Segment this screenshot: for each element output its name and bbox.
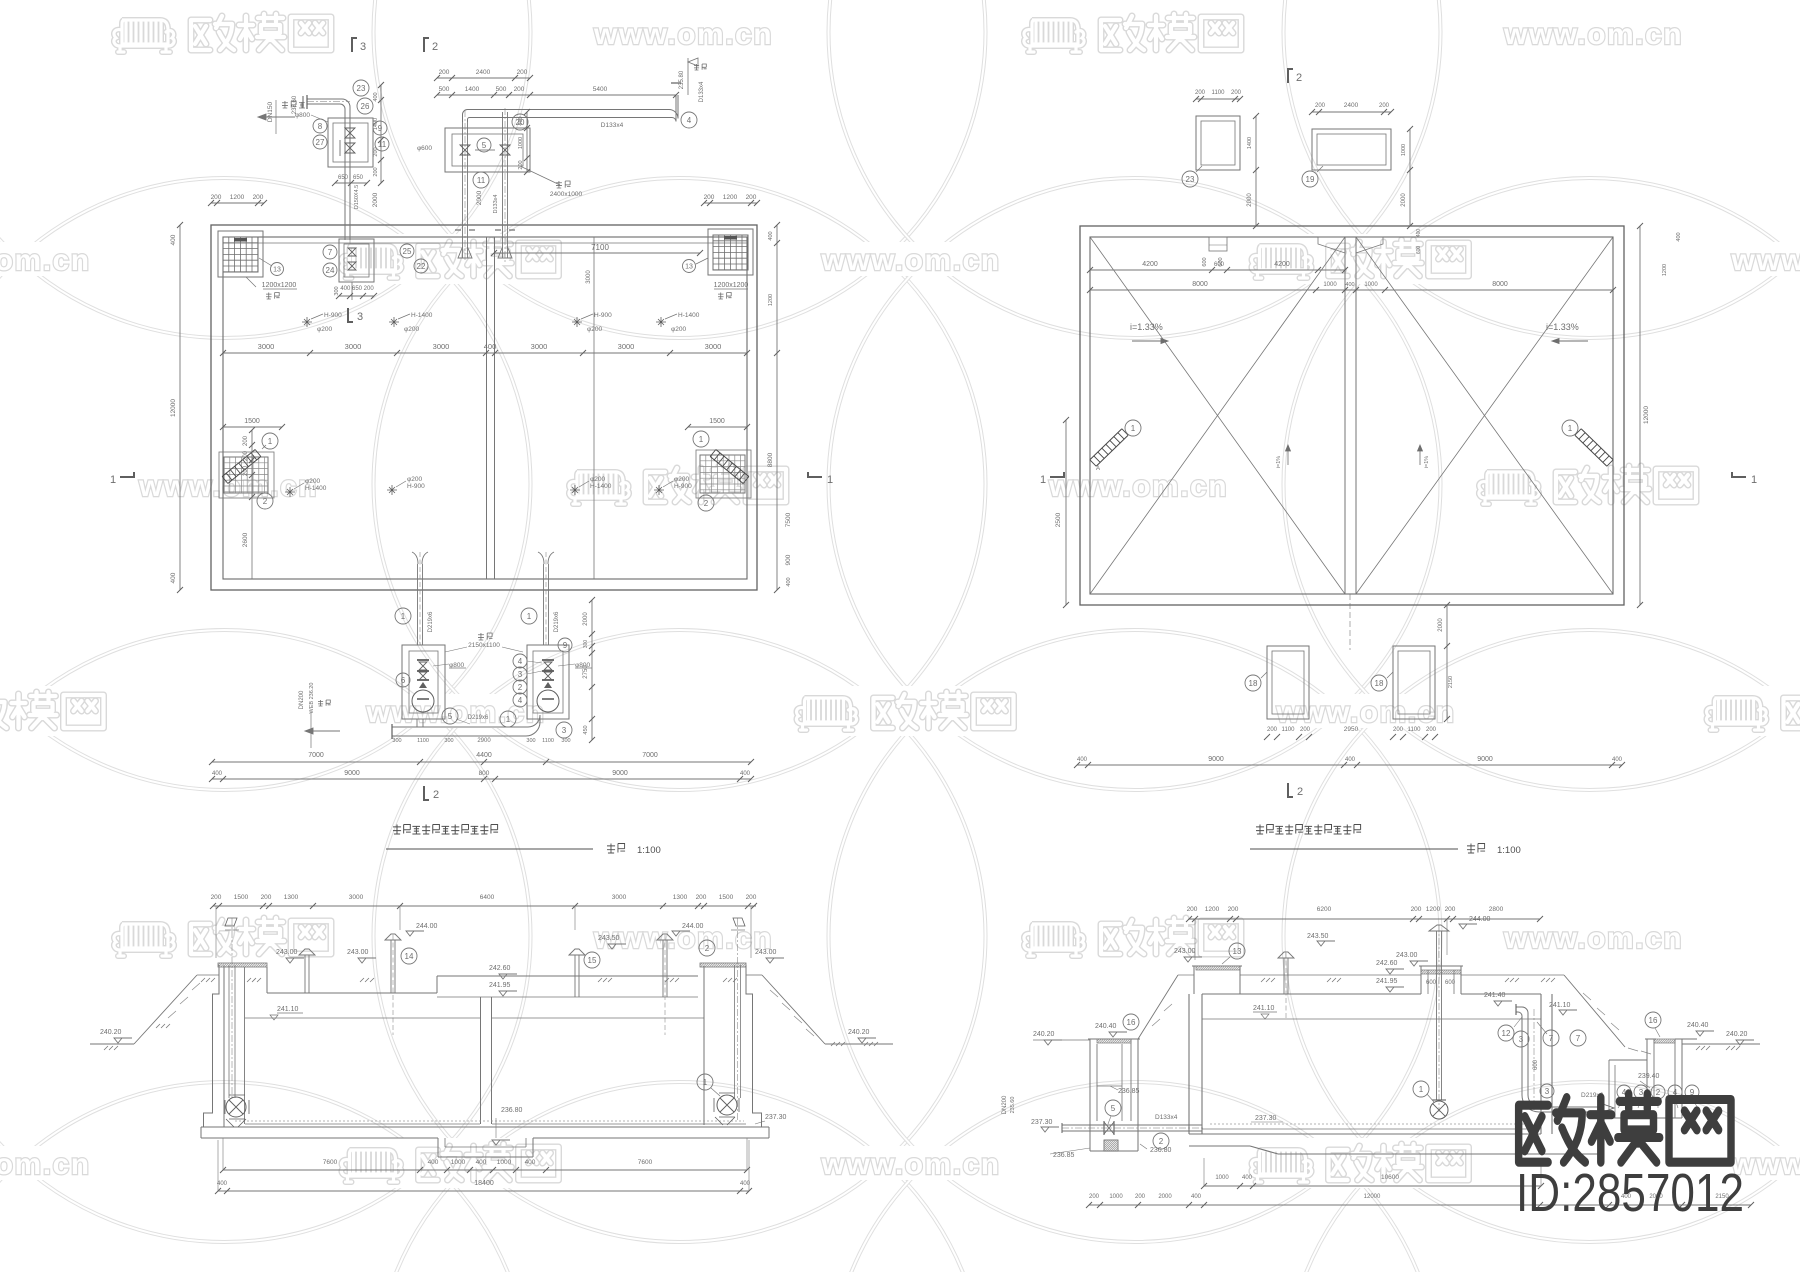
svg-text:3000: 3000 [349, 894, 364, 901]
svg-text:5: 5 [448, 712, 453, 721]
svg-text:1200x1200: 1200x1200 [714, 282, 749, 289]
d1 section mark 1-1 [120, 472, 134, 477]
svg-text:2150: 2150 [1448, 676, 1454, 688]
svg-text:3: 3 [518, 670, 523, 679]
svg-text:φ200: φ200 [590, 476, 605, 483]
svg-text:200: 200 [1393, 727, 1404, 733]
d2 inlet funnels [1318, 237, 1345, 253]
d4 bottom dims [1204, 1185, 1541, 1187]
svg-text:φ200: φ200 [404, 326, 419, 333]
svg-text:600: 600 [1202, 257, 1208, 266]
svg-text:200: 200 [517, 69, 528, 76]
svg-text:1000: 1000 [497, 1159, 512, 1166]
svg-text:5: 5 [482, 141, 487, 150]
svg-text:16: 16 [1649, 1016, 1658, 1025]
svg-text:8800: 8800 [767, 452, 774, 467]
d1 bell mouths [458, 247, 472, 258]
d1 center wall right [494, 237, 496, 579]
d1 valve box left [328, 118, 373, 167]
d2 title [1256, 825, 1264, 835]
svg-text:φ200: φ200 [671, 326, 686, 333]
svg-text:2500: 2500 [1055, 512, 1062, 527]
svg-text:1: 1 [703, 1078, 708, 1087]
d3 pump left [226, 1097, 246, 1117]
svg-text:236.80: 236.80 [1150, 1147, 1172, 1154]
svg-text:240.40: 240.40 [1095, 1023, 1117, 1030]
svg-text:2: 2 [432, 41, 438, 53]
svg-text:8000: 8000 [1192, 281, 1208, 288]
svg-text:240.40: 240.40 [1687, 1022, 1709, 1029]
svg-text:φ200: φ200 [305, 478, 320, 485]
svg-text:3000: 3000 [705, 342, 722, 351]
svg-text:600: 600 [1445, 980, 1456, 986]
svg-text:1200: 1200 [1662, 264, 1668, 276]
svg-text:8: 8 [318, 122, 323, 131]
svg-text:1: 1 [699, 435, 704, 444]
svg-text:6200: 6200 [1317, 906, 1332, 913]
svg-text:1: 1 [268, 437, 273, 446]
svg-text:400: 400 [786, 577, 792, 586]
svg-text:1000: 1000 [1401, 144, 1407, 156]
svg-text:200: 200 [243, 435, 249, 446]
svg-text:1500: 1500 [244, 418, 260, 425]
svg-text:2: 2 [518, 683, 523, 692]
svg-text:2000: 2000 [1247, 193, 1253, 207]
svg-text:D219x6: D219x6 [468, 715, 489, 721]
svg-text:DN200: DN200 [1002, 1095, 1008, 1114]
svg-text:26: 26 [361, 102, 370, 111]
svg-text:H-900: H-900 [407, 483, 425, 490]
d3 bottom slab [245, 1123, 480, 1125]
svg-text:200: 200 [1315, 103, 1326, 109]
svg-text:18400: 18400 [474, 1180, 494, 1187]
svg-text:300: 300 [392, 738, 401, 744]
svg-text:16: 16 [1127, 1018, 1136, 1027]
svg-text:DN150: DN150 [267, 101, 274, 122]
svg-text:9000: 9000 [1208, 756, 1224, 763]
svg-text:243.00: 243.00 [1174, 948, 1196, 955]
d2 opening A [1196, 116, 1240, 170]
svg-text:6: 6 [401, 676, 406, 685]
svg-text:3000: 3000 [531, 342, 548, 351]
svg-text:1200: 1200 [230, 194, 245, 201]
d4 outlet chamber [1646, 1039, 1648, 1110]
svg-text:8000: 8000 [1492, 281, 1508, 288]
svg-text:200: 200 [1300, 727, 1311, 733]
svg-text:1: 1 [1131, 424, 1136, 433]
svg-text:200: 200 [211, 194, 222, 201]
svg-text:12000: 12000 [1364, 1194, 1381, 1200]
svg-text:241.95: 241.95 [489, 982, 511, 989]
d4 top dims [1189, 918, 1540, 920]
d2 opening C [1267, 646, 1309, 719]
svg-text:i=1%: i=1% [1276, 456, 1282, 468]
d4 ground [1138, 975, 1178, 1039]
svg-text:400: 400 [740, 771, 751, 777]
svg-text:400: 400 [1345, 757, 1356, 763]
svg-text:φ200: φ200 [317, 326, 332, 333]
svg-text:9000: 9000 [612, 770, 628, 777]
svg-text:3: 3 [357, 311, 363, 323]
svg-text:400: 400 [476, 1159, 487, 1166]
d1 pump box left [402, 645, 445, 719]
svg-text:650: 650 [353, 175, 364, 181]
svg-text:400: 400 [525, 1159, 536, 1166]
svg-text:2150x1100: 2150x1100 [468, 642, 500, 649]
svg-text:2000: 2000 [1401, 193, 1407, 207]
svg-text:H-1400: H-1400 [590, 483, 612, 490]
svg-text:D133x4: D133x4 [493, 195, 499, 214]
d4 center box 600x600 [1420, 966, 1422, 994]
svg-text:D150X4.5: D150X4.5 [354, 185, 360, 209]
svg-text:200: 200 [243, 450, 249, 461]
svg-text:200: 200 [1195, 90, 1206, 96]
svg-text:ID:2857012: ID:2857012 [1516, 1163, 1744, 1223]
svg-text:4200: 4200 [1142, 261, 1158, 268]
svg-text:1500: 1500 [709, 418, 725, 425]
svg-text:6400: 6400 [480, 894, 495, 901]
svg-text:H-1400: H-1400 [305, 485, 327, 492]
svg-text:φ200: φ200 [587, 326, 602, 333]
d1 tank outer wall [211, 225, 757, 590]
svg-text:9: 9 [563, 641, 568, 650]
watermark rings [0, 0, 531, 338]
svg-text:23: 23 [357, 84, 366, 93]
d2 opening B [1312, 129, 1391, 170]
svg-text:1000: 1000 [451, 1159, 466, 1166]
svg-text:400: 400 [170, 572, 177, 583]
d1 title [393, 825, 401, 835]
svg-text:2900: 2900 [477, 738, 491, 744]
svg-text:7600: 7600 [323, 1159, 338, 1166]
svg-text:242.60: 242.60 [1376, 960, 1398, 967]
svg-text:1500: 1500 [234, 894, 249, 901]
d3 right sluice [737, 918, 739, 1120]
svg-text:18: 18 [1375, 679, 1384, 688]
svg-text:i=1.33%: i=1.33% [1130, 322, 1163, 332]
svg-text:12000: 12000 [170, 399, 177, 417]
d3 center pit [437, 1138, 439, 1157]
svg-text:200: 200 [211, 894, 222, 901]
svg-text:600: 600 [1426, 980, 1437, 986]
svg-text:1000: 1000 [1323, 282, 1337, 288]
d1 valve cross markers [302, 317, 312, 327]
svg-text:1: 1 [506, 715, 511, 724]
svg-text:240.20: 240.20 [848, 1029, 870, 1036]
svg-text:244.00: 244.00 [1469, 916, 1491, 923]
svg-text:3: 3 [562, 726, 567, 735]
svg-text:239.40: 239.40 [1638, 1073, 1660, 1080]
svg-text:400: 400 [1077, 757, 1088, 763]
svg-text:3: 3 [1545, 1087, 1550, 1096]
svg-text:H-900: H-900 [594, 312, 612, 319]
d3 top slabs [267, 992, 437, 994]
d3 top dims [213, 905, 756, 907]
svg-text:7600: 7600 [638, 1159, 653, 1166]
d4 left walkway block [1193, 966, 1195, 994]
svg-text:650: 650 [338, 175, 349, 181]
svg-text:7000: 7000 [308, 752, 324, 759]
svg-text:240.20: 240.20 [1726, 1031, 1748, 1038]
svg-text:400: 400 [373, 92, 379, 101]
svg-text:242.60: 242.60 [489, 965, 511, 972]
svg-text:400: 400 [1345, 282, 1354, 288]
svg-text:236.80: 236.80 [501, 1107, 523, 1114]
big watermark OMW logo [1519, 1094, 1731, 1162]
svg-text:400 650 200: 400 650 200 [340, 286, 374, 292]
svg-text:1200: 1200 [1426, 906, 1441, 913]
svg-text:237.30: 237.30 [1031, 1119, 1053, 1126]
svg-text:7100: 7100 [591, 243, 609, 252]
d3 water line [245, 1017, 480, 1019]
d2 tank outer wall [1080, 226, 1624, 605]
svg-text:800: 800 [479, 770, 490, 777]
svg-text:φ200: φ200 [674, 476, 689, 483]
svg-text:φ600: φ600 [417, 145, 432, 152]
d3 right wall [703, 966, 705, 1125]
svg-text:200: 200 [1135, 1194, 1146, 1200]
svg-text:2: 2 [1297, 786, 1303, 798]
svg-text:13: 13 [273, 267, 281, 274]
svg-text:2000: 2000 [372, 192, 379, 207]
svg-text:1400: 1400 [373, 118, 379, 130]
svg-text:3000: 3000 [612, 894, 627, 901]
svg-text:2800: 2800 [1489, 906, 1504, 913]
svg-text:H-900: H-900 [324, 312, 342, 319]
d3 vent pipes [304, 955, 306, 993]
d1 center distribution box [339, 239, 374, 282]
svg-text:2400x1000: 2400x1000 [550, 191, 583, 198]
svg-text:13: 13 [685, 264, 693, 271]
svg-text:H-900: H-900 [674, 483, 692, 490]
svg-text:2400: 2400 [1344, 102, 1359, 109]
svg-text:18: 18 [1249, 679, 1258, 688]
svg-text:200: 200 [1267, 727, 1278, 733]
svg-text:200: 200 [704, 194, 715, 201]
svg-text:2: 2 [1159, 1137, 1164, 1146]
svg-text:25: 25 [403, 247, 412, 256]
d2 diagonals [1090, 237, 1345, 594]
svg-text:243.00: 243.00 [755, 949, 777, 956]
svg-text:1300: 1300 [284, 894, 299, 901]
svg-text:1100: 1100 [1212, 90, 1226, 96]
svg-text:241.40: 241.40 [1484, 992, 1506, 999]
svg-text:243.00: 243.00 [347, 949, 369, 956]
svg-text:H-1400: H-1400 [411, 312, 433, 319]
svg-text:19: 19 [1306, 175, 1315, 184]
svg-text:450: 450 [583, 725, 589, 734]
svg-text:11: 11 [477, 176, 486, 185]
svg-text:235.80: 235.80 [679, 70, 685, 89]
svg-text:1: 1 [1419, 1085, 1424, 1094]
svg-text:600: 600 [1416, 246, 1422, 255]
d4 inlet pipe left [1062, 1124, 1202, 1126]
svg-text:4: 4 [687, 116, 692, 125]
svg-text:244.00: 244.00 [682, 923, 704, 930]
svg-text:200: 200 [1379, 103, 1390, 109]
svg-text:400: 400 [518, 116, 524, 125]
svg-text:200: 200 [746, 194, 757, 201]
svg-text:200: 200 [1426, 727, 1437, 733]
d4 center pipe and pump [1436, 931, 1438, 1100]
svg-text:7: 7 [328, 248, 333, 257]
svg-text:13: 13 [1233, 947, 1242, 956]
svg-text:200: 200 [1445, 906, 1456, 913]
svg-text:2: 2 [1656, 1088, 1661, 1097]
svg-text:400: 400 [1612, 757, 1623, 763]
d1 pump box right [527, 645, 569, 719]
d4 left valve chamber [1089, 1039, 1091, 1151]
svg-text:200: 200 [1228, 906, 1239, 913]
svg-text:300: 300 [444, 738, 453, 744]
svg-text:2: 2 [1296, 72, 1302, 84]
svg-text:1:100: 1:100 [637, 845, 661, 856]
svg-text:i=1%: i=1% [1424, 456, 1430, 468]
svg-text:2000: 2000 [583, 612, 589, 626]
svg-text:5: 5 [1111, 1104, 1116, 1113]
svg-text:300: 300 [526, 738, 535, 744]
d1 valve box right [445, 128, 530, 172]
d4 tank right wall [1540, 994, 1542, 1134]
svg-text:2000: 2000 [1438, 618, 1444, 632]
d1 walkway line [223, 242, 747, 244]
d1 top-left grid pit [218, 231, 263, 277]
svg-text:400: 400 [1416, 229, 1422, 238]
svg-text:244.00: 244.00 [416, 923, 438, 930]
svg-text:243.00: 243.00 [1396, 952, 1418, 959]
svg-text:1300: 1300 [673, 894, 688, 901]
svg-text:1000: 1000 [518, 137, 524, 149]
svg-text:200: 200 [439, 69, 450, 76]
svg-text:500: 500 [439, 86, 450, 93]
svg-text:2600: 2600 [242, 532, 249, 547]
d1 inlet pipe D133x4 [463, 95, 679, 122]
svg-text:200: 200 [746, 894, 757, 901]
svg-text:2750: 2750 [583, 665, 589, 679]
svg-text:4: 4 [518, 696, 523, 705]
svg-text:2: 2 [433, 789, 439, 801]
svg-text:D219x6: D219x6 [554, 611, 560, 632]
watermark text rows [102, 8, 773, 58]
d2 scraper right [1581, 429, 1613, 460]
svg-text:300: 300 [334, 286, 340, 295]
svg-text:243.00: 243.00 [276, 949, 298, 956]
d4 bottom slab [1202, 1128, 1541, 1130]
d2 center wall right [1355, 237, 1357, 594]
svg-text:4: 4 [518, 657, 523, 666]
svg-text:241.10: 241.10 [277, 1006, 299, 1013]
svg-text:300: 300 [561, 738, 570, 744]
svg-text:200: 200 [253, 194, 264, 201]
svg-text:5400: 5400 [593, 86, 608, 93]
svg-text:1: 1 [1751, 474, 1757, 486]
d2 interior dims [1090, 269, 1345, 271]
svg-text:7: 7 [1549, 1034, 1554, 1043]
svg-text:15: 15 [588, 956, 597, 965]
svg-text:i=1.33%: i=1.33% [1546, 322, 1579, 332]
svg-text:200: 200 [1187, 906, 1198, 913]
svg-text:200: 200 [1411, 906, 1422, 913]
svg-text:236.85: 236.85 [1118, 1088, 1140, 1095]
svg-text:200: 200 [696, 894, 707, 901]
svg-text:1: 1 [1040, 474, 1046, 486]
d1 mid-right grid pit with scraper [696, 450, 751, 498]
svg-text:3: 3 [1639, 1088, 1644, 1097]
svg-text:400: 400 [428, 1159, 439, 1166]
svg-text:400: 400 [212, 771, 223, 777]
d2 center wall left [1344, 237, 1346, 594]
svg-text:200: 200 [1231, 90, 1242, 96]
svg-text:14: 14 [405, 952, 414, 961]
d1 drain note [310, 712, 312, 748]
svg-text:1200x1200: 1200x1200 [262, 282, 297, 289]
svg-text:12: 12 [1502, 1029, 1511, 1038]
d4 interior top slab [1202, 993, 1421, 995]
svg-text:240.20: 240.20 [100, 1029, 122, 1036]
svg-text:1500: 1500 [719, 894, 734, 901]
svg-text:1200: 1200 [723, 194, 738, 201]
svg-text:1100: 1100 [1408, 727, 1422, 733]
svg-text:4200: 4200 [1274, 261, 1290, 268]
d3 pump right [717, 1095, 737, 1115]
svg-text:400: 400 [1676, 232, 1682, 241]
svg-text:241.95: 241.95 [1376, 978, 1398, 985]
svg-text:400: 400 [1191, 1194, 1202, 1200]
d1 center wall left [486, 237, 488, 579]
svg-text:1: 1 [527, 612, 532, 621]
svg-text:A: A [1096, 466, 1100, 472]
svg-text:φ800: φ800 [295, 112, 310, 119]
svg-text:243.50: 243.50 [598, 935, 620, 942]
svg-text:1100: 1100 [1282, 727, 1296, 733]
d3 right ground [762, 975, 825, 1044]
svg-text:7000: 7000 [642, 752, 658, 759]
svg-text:600: 600 [1214, 262, 1225, 268]
svg-text:1400: 1400 [1247, 137, 1253, 149]
d4 tank left wall [1188, 994, 1190, 1134]
svg-text:1400: 1400 [465, 86, 480, 93]
svg-text:200: 200 [518, 160, 524, 169]
d1 interior dimension chain [223, 352, 747, 354]
svg-text:400: 400 [1242, 1175, 1253, 1181]
svg-text:1000: 1000 [1364, 282, 1378, 288]
d4 outlet elbow pipe [1516, 1007, 1602, 1112]
svg-text:3000: 3000 [345, 342, 362, 351]
svg-text:240.20: 240.20 [1033, 1031, 1055, 1038]
svg-text:241.10: 241.10 [1549, 1002, 1571, 1009]
svg-text:2000: 2000 [476, 190, 483, 205]
svg-text:200: 200 [261, 894, 272, 901]
d3 center wall [480, 997, 482, 1124]
svg-text:1:100: 1:100 [1497, 845, 1521, 856]
svg-text:10600: 10600 [1381, 1174, 1399, 1181]
svg-text:900: 900 [785, 554, 792, 565]
svg-text:400: 400 [170, 234, 177, 245]
svg-text:7500: 7500 [785, 512, 792, 527]
svg-text:500: 500 [496, 86, 507, 93]
svg-text:1200: 1200 [1205, 906, 1220, 913]
svg-text:237.30: 237.30 [1255, 1115, 1277, 1122]
svg-text:3000: 3000 [258, 342, 275, 351]
svg-text:WEB 236.20: WEB 236.20 [309, 683, 315, 714]
svg-text:D219x6: D219x6 [428, 611, 434, 632]
d2 tank inner wall [1090, 237, 1613, 594]
svg-text:4400: 4400 [476, 752, 492, 759]
svg-text:2: 2 [705, 944, 710, 953]
svg-text:12000: 12000 [1643, 406, 1650, 424]
svg-text:24: 24 [326, 266, 335, 275]
svg-text:1: 1 [401, 612, 406, 621]
